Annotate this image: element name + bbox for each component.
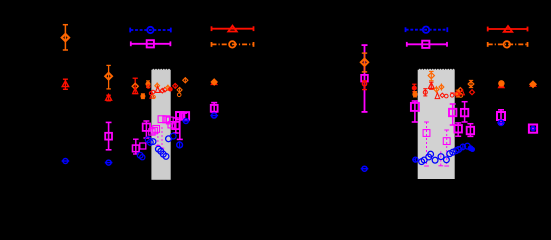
- p1 blue open circle cluster 5: [170, 133, 176, 139]
- legend p1: orange dash-dot horizontal error bar: [212, 42, 254, 47]
- gray band panel 1 (SPS energy range): [151, 69, 170, 180]
- p1 red triangle data point x=108: [106, 94, 112, 100]
- p2 blue open circle x=462: [460, 144, 465, 151]
- p2 blue open circle cluster 7: [444, 157, 450, 163]
- p2 magenta open square x=532: [529, 125, 537, 133]
- p2 blue filled circle x=501: [497, 120, 505, 125]
- p1 magenta thin square c1: [158, 116, 165, 123]
- p2 blue open circle cluster 10: [453, 148, 459, 154]
- p1 orange open diamond cluster h: [166, 85, 171, 91]
- p1 red open triangle cluster c: [150, 92, 154, 98]
- p1 red open diamond cluster f: [160, 88, 165, 93]
- p1 red open circle x=148: [147, 85, 150, 88]
- legend p1: blue dashed horizontal error bar: [130, 28, 171, 33]
- p1 magenta thin square c5: [153, 126, 160, 133]
- legend p2: orange open circle marker: [504, 41, 510, 47]
- p2 magenta thin square x=425 dashed bar: [423, 122, 430, 166]
- p2 blue open circle cluster 9: [450, 149, 456, 155]
- legend p1: magenta open square marker: [147, 40, 154, 47]
- p1 magenta bold square x=179: [176, 112, 187, 139]
- p1 magenta square data point x=135: [133, 139, 140, 154]
- p1 red triangle data point x=135: [133, 88, 138, 94]
- p2 blue filled circle x=414: [412, 157, 418, 163]
- p2 orange filled diamond x=532: [530, 81, 536, 87]
- p2 red triangle x=431: [428, 82, 434, 89]
- p2 orange filled circle x=501: [499, 81, 504, 86]
- p2 orange diamond x=441: [439, 83, 444, 90]
- p1 red open diamond cluster j: [173, 83, 178, 89]
- legend p1: magenta solid horizontal error bar: [131, 41, 171, 46]
- p1 red open triangle cluster e: [155, 87, 160, 93]
- p2 blue filled circle x=470: [468, 146, 473, 151]
- legend p2: blue dashed horizontal error bar: [406, 27, 448, 32]
- legend p2: red open triangle marker: [504, 26, 512, 32]
- p2 red open diamond x=472: [470, 90, 475, 95]
- p1 red cross cluster b: [149, 92, 152, 95]
- p2 red open circle x=425: [423, 89, 427, 96]
- p2 blue open circle cluster 2: [421, 157, 427, 163]
- p2 orange diamond x=436: [434, 86, 439, 93]
- p1 magenta bold square x=186: [182, 112, 190, 120]
- p1 orange filled diamond x=214: [212, 79, 217, 84]
- p1 magenta thin square c4: [168, 122, 174, 128]
- p1 blue open circle x=142: [140, 155, 145, 160]
- p1 magenta dashed error bar b: [160, 127, 164, 148]
- p2 blue open circle cluster 6: [438, 154, 444, 160]
- p1 blue open circle x=186: [182, 119, 189, 124]
- p2 blue small marker x=459: [458, 147, 461, 150]
- p1 blue open circle cluster 6: [156, 146, 162, 152]
- p1 magenta bold square x=214: [211, 103, 218, 112]
- p1 orange filled circle x=148: [146, 81, 150, 87]
- p1 magenta square data point x=108: [105, 122, 112, 149]
- legend p1: red open triangle marker: [228, 26, 236, 32]
- p2 orange open circle x=460b: [459, 94, 463, 98]
- p1 orange open diamond x=179: [177, 87, 182, 93]
- p2 magenta bold square x=452: [449, 104, 456, 125]
- p1 red filled circle cluster i: [169, 88, 172, 91]
- p1 magenta bold square x=175: [172, 118, 179, 133]
- legend p2: magenta open square marker: [422, 41, 429, 48]
- p2 red diamond x=442: [440, 93, 444, 97]
- p2 red triangle x=437: [435, 93, 440, 99]
- p2 red open triangle x=461: [459, 89, 464, 95]
- p1 blue open circle cluster 4: [166, 136, 172, 142]
- p1 magenta dashed error bar a: [156, 132, 160, 146]
- p2 red filled circle x=414: [412, 84, 416, 92]
- p2 magenta square x=364 with long error bar: [361, 45, 368, 112]
- p1 magenta thin square c2: [163, 116, 170, 123]
- p1 orange open circle x=179b: [177, 93, 181, 97]
- p2 orange diamond x=471: [468, 80, 474, 87]
- p2 magenta bold square x=470: [467, 124, 474, 137]
- p2 blue filled circle x=532: [531, 126, 535, 130]
- legend p1: blue open circle marker: [147, 27, 153, 33]
- legend p2: orange dash-dot horizontal error bar: [488, 42, 528, 47]
- p2 blue open circle cluster 1: [419, 159, 425, 165]
- p2 blue filled circle x=364: [361, 166, 369, 171]
- p1 orange diamond data point x=65: [62, 25, 69, 50]
- p1 red triangle data point x=65: [62, 79, 68, 89]
- p2 red filled triangle x=501: [498, 81, 506, 88]
- legend p1: orange open circle marker: [229, 41, 235, 47]
- p1 blue open circle cluster 1: [145, 137, 151, 143]
- legend p2: blue open circle marker: [423, 27, 429, 33]
- p2 magenta thin square x=446 dashed bar: [443, 130, 450, 166]
- p1 blue open circle cluster 2: [147, 140, 153, 146]
- p2 orange diamond x=460: [458, 88, 463, 93]
- p2 orange filled circle x=415: [413, 92, 417, 97]
- legend p2: magenta solid horizontal error bar: [407, 42, 447, 47]
- p2 red open circle x=452: [450, 93, 454, 97]
- p2 magenta bold square x=463: [461, 102, 468, 122]
- p2 red filled triangle x=532: [529, 81, 537, 87]
- p1 orange open diamond x=185: [183, 77, 188, 83]
- p1 magenta thin square c7: [151, 127, 157, 133]
- p2 orange filled circle x=457: [456, 90, 460, 97]
- p1 blue open circle x=179: [177, 141, 183, 148]
- p1 magenta bold square x=146: [143, 121, 150, 138]
- p1 orange open diamond cluster d: [155, 82, 160, 89]
- p1 blue open circle cluster 7: [158, 148, 164, 154]
- p2 blue open circle cluster 8: [447, 151, 453, 157]
- p2 blue open circle cluster 5: [432, 157, 438, 163]
- p2 orange diamond x=364: [361, 53, 368, 72]
- p2 magenta bold square x=414: [411, 101, 419, 122]
- p1 red open diamond cluster g: [163, 87, 168, 92]
- p1 orange filled circle x=143: [141, 94, 145, 99]
- p2 blue open circle cluster 11: [456, 147, 462, 153]
- p2 red open circle x=446: [445, 94, 449, 98]
- p2 blue open circle cluster 4: [428, 151, 434, 157]
- legend p1: red solid horizontal error bar: [212, 26, 254, 31]
- p1 red filled triangle x=214: [210, 79, 218, 86]
- p2 blue open circle cluster 3: [426, 154, 432, 160]
- p1 magenta square data point x=142: [140, 143, 146, 149]
- p1 blue open circle cluster 3: [150, 139, 156, 145]
- p1 magenta thin square c6: [149, 129, 155, 135]
- legend p2: red solid horizontal error bar: [488, 27, 528, 32]
- p2 blue open circle cluster 12: [465, 143, 471, 149]
- p1 magenta thin square c3: [166, 117, 173, 124]
- p2 blue filled circle x=472: [470, 147, 474, 151]
- p1 blue filled circle x=214: [210, 113, 218, 118]
- p1 blue open circle cluster 9: [163, 154, 169, 160]
- p1 blue filled circle data point x=108: [105, 160, 113, 165]
- p1 blue open circle cluster 8: [160, 151, 166, 157]
- gray band panel 2 (SPS energy range): [418, 69, 455, 179]
- p1 red open circle cluster a: [151, 90, 155, 94]
- p2 red open circle x=456: [455, 92, 459, 96]
- p1 blue open circle x=140: [137, 152, 143, 158]
- p2 magenta bold square x=458: [455, 123, 462, 136]
- p2 orange diamond x=431 top: [428, 71, 434, 80]
- p2 magenta dashed error bar x=441: [438, 152, 443, 166]
- p1 blue filled circle data point x=65: [62, 159, 70, 164]
- p1 orange open circle cluster c2: [152, 95, 155, 98]
- p1 orange diamond data point x=135: [132, 78, 138, 93]
- p1 orange diamond data point x=108: [105, 65, 112, 89]
- p2 red open circle x=364: [362, 81, 367, 90]
- p2 magenta bold square x=501: [497, 110, 505, 124]
